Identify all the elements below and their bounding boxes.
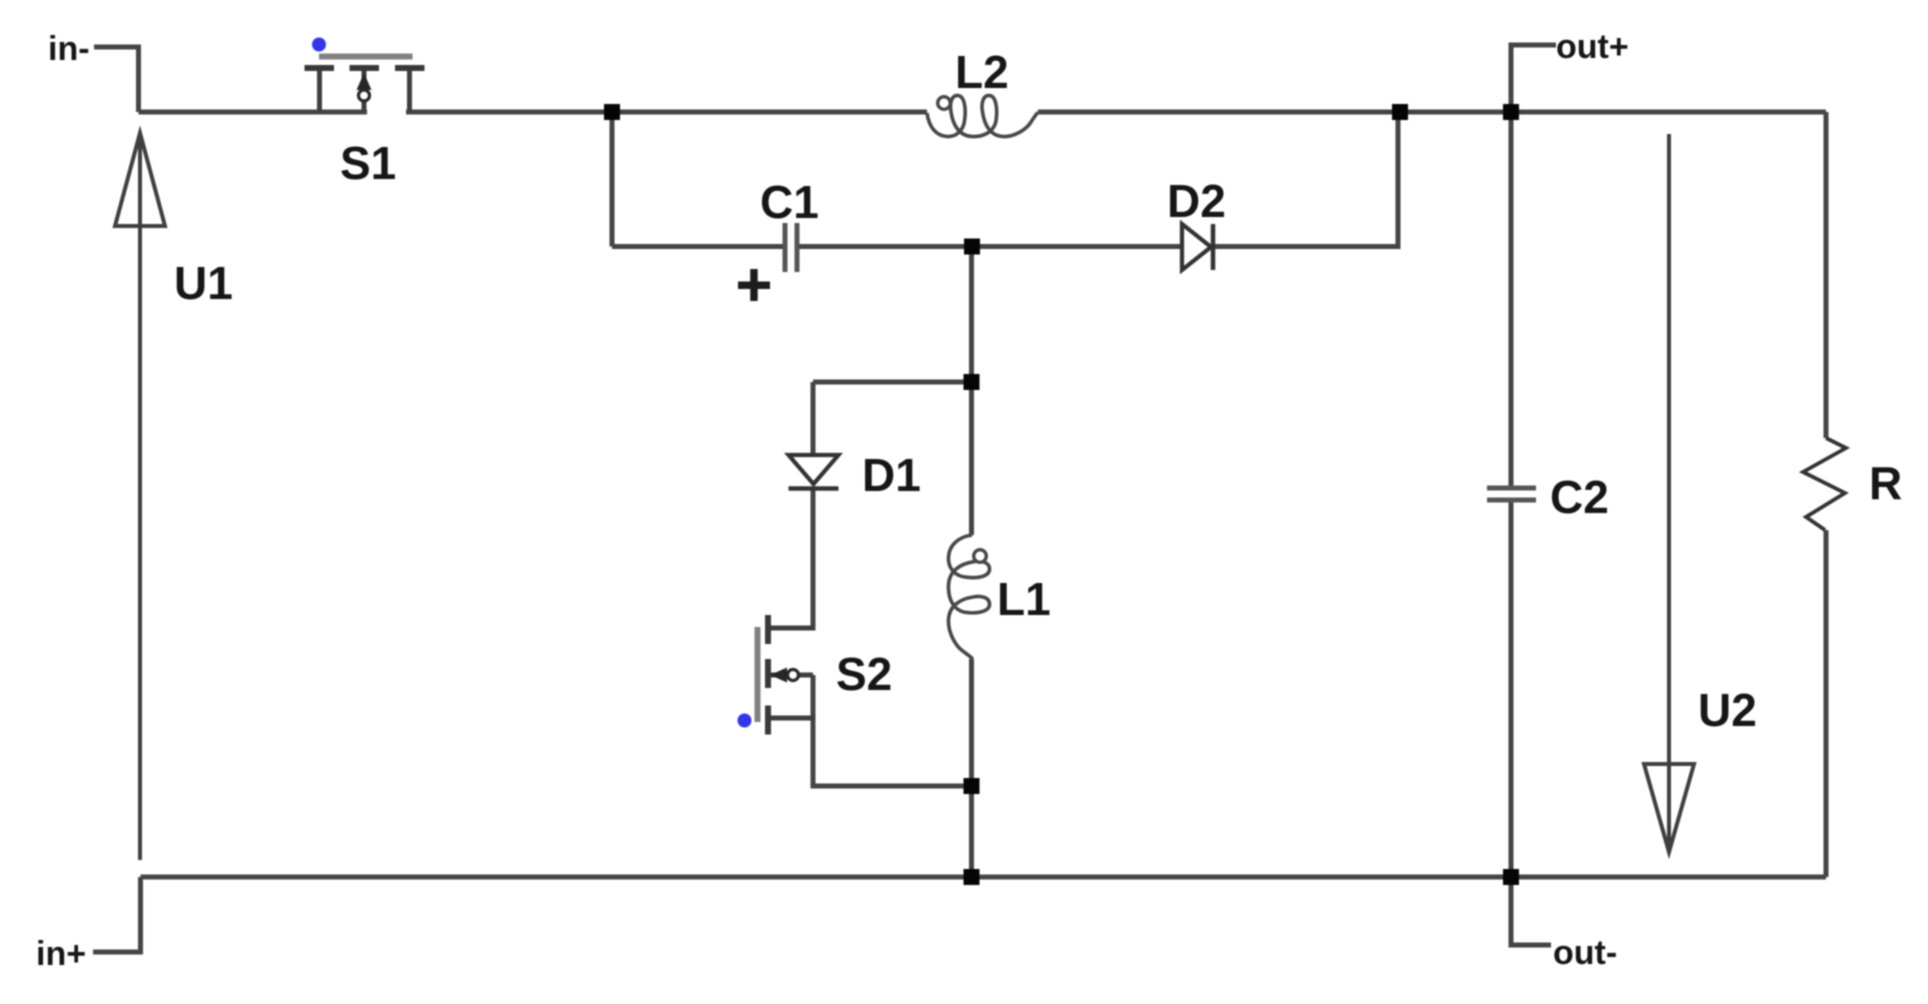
inductor L2 coil [927,95,1038,136]
wire R branch top [1824,112,1829,438]
transistor S1 drain contact cap [305,65,335,71]
wire top rail S1 to L2 [406,110,927,115]
diode D1 cathode bar [789,486,839,491]
transistor S2 body arrow [770,668,787,683]
svg-text:L2: L2 [955,46,1009,98]
node D1 tee junction dot [964,374,980,390]
inductor L1 polarity ring [974,550,987,563]
diode D2 triangle [1182,224,1211,270]
node A junction dot [604,104,620,120]
svg-text:U2: U2 [1698,684,1757,736]
transistor S1 gate blue dot [312,38,326,52]
capacitor C2 bottom plate [1487,498,1536,503]
transistor S1 body arrow [357,73,372,90]
voltage source U1 arrowhead [115,133,165,226]
transistor S2 source stub [771,716,815,721]
capacitor C1 plus sign [738,282,770,290]
capacitor C1 right plate [795,223,800,272]
wire bottom rail [141,875,1827,880]
wire C2 branch lower [1509,501,1514,877]
transistor S1 source contact cap [395,65,425,71]
wire out- stub [1511,877,1551,945]
wire L1 bottom to S2 tee [969,659,974,786]
wire C1 branch down from node A [610,112,615,247]
capacitor C1 left plate [783,223,788,272]
node S2 tee junction dot [964,778,980,794]
voltage source U1 arrow shaft [138,135,142,860]
wire C2 branch upper [1509,112,1514,486]
capacitor C2 top plate [1487,486,1536,491]
node D2-top junction dot [1392,104,1408,120]
wire in- lead [94,47,139,112]
node B (C1/D2) junction dot [964,239,980,255]
svg-text:D2: D2 [1167,175,1226,227]
wire D1 tee horizontal [813,380,972,385]
transistor S2 gate bar [755,627,761,722]
wire node B down to D1 tee [969,247,974,383]
svg-text:U1: U1 [174,257,233,309]
transistor S2 drain contact bar [765,615,771,644]
transistor S2 body contact bar [765,659,771,688]
svg-text:S2: S2 [836,648,892,700]
svg-text:D1: D1 [862,449,921,501]
transistor S2 drain stub [771,626,813,631]
wire in+ lead [93,877,141,952]
wire D1 tee down to L1 top [969,382,974,535]
svg-text:C1: C1 [760,176,819,228]
voltage arrow U2 shaft [1667,134,1671,852]
wire out+ stub [1511,45,1556,112]
svg-text:S1: S1 [340,137,396,189]
wire S2 tee down to bottom rail [969,786,974,877]
diode D2 cathode bar [1211,224,1216,270]
wire C1 right plate to D2 [799,244,1182,249]
svg-text:out-: out- [1553,934,1617,972]
transistor S2 body stub [771,673,813,678]
resistor R zigzag [1803,438,1846,530]
transistor S1 drain stem [317,71,322,112]
voltage arrow U2 arrowhead [1644,764,1694,852]
transistor S1 gate bar [319,54,413,60]
node out- junction dot [1503,869,1519,885]
wire top rail L2 to right corner [1038,110,1826,115]
transistor S1 body stem [362,71,367,112]
wire D1 cathode to S2 drain corner [771,490,813,628]
inductor L2 polarity ring [938,97,951,110]
inductor L1 coil [948,535,989,659]
svg-text:C2: C2 [1550,471,1609,523]
transistor S1 body contact cap [350,65,380,71]
wire top rail left of S1 [139,110,368,115]
wire S2 source channel down and right to tee [813,675,972,786]
wire R branch bottom [1824,530,1829,877]
wire node to C1 left plate [612,244,783,249]
transistor S2 source contact bar [765,706,771,735]
transistor S1 source stem [407,71,412,112]
node bottom-L1 junction dot [964,869,980,885]
wire D2 to corner up to top rail [1214,112,1398,247]
svg-text:in-: in- [48,30,90,68]
svg-text:R: R [1869,457,1902,509]
wire D1 anode lead [811,382,816,453]
transistor S2 gate blue dot [738,714,752,728]
node out+ junction dot [1503,104,1519,120]
svg-text:out+: out+ [1556,28,1629,66]
svg-text:L1: L1 [997,573,1051,625]
diode D1 triangle [789,455,839,484]
svg-text:in+: in+ [36,935,86,973]
